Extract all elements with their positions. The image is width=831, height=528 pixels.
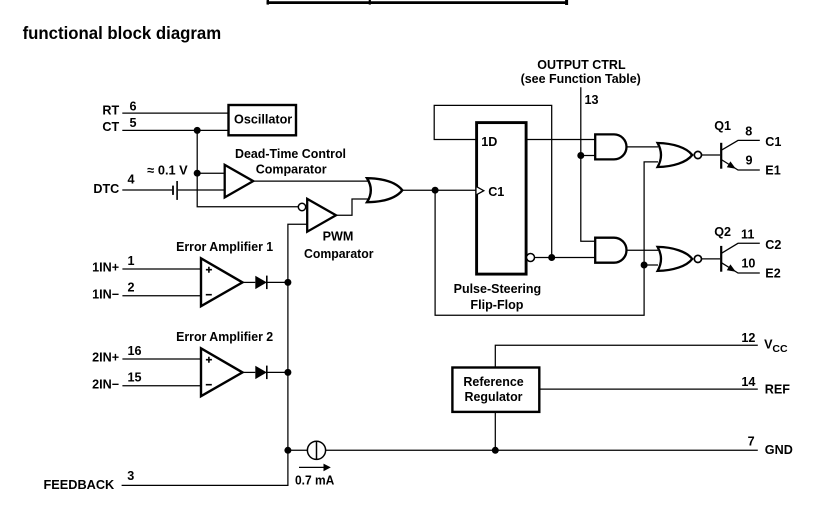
svg-text:E2: E2 [765,267,780,281]
wire long feedback to output NOR gates [435,162,658,315]
battery 0.1 V offset [172,186,174,195]
svg-text:4: 4 [127,173,134,187]
svg-text:functional block diagram: functional block diagram [23,23,222,43]
svg-text:2: 2 [127,281,134,295]
svg-text:Reference: Reference [463,375,523,389]
svg-text:PWM: PWM [323,230,354,244]
svg-text:15: 15 [127,371,141,385]
node OR output junction [432,187,439,194]
svg-text:Comparator: Comparator [304,247,374,261]
diode D2 [255,366,266,379]
svg-text:CC: CC [772,343,788,355]
svg-text:C2: C2 [765,238,781,252]
svg-text:≈ 0.1 V: ≈ 0.1 V [147,164,188,178]
wire 1D feedback loop [434,105,552,257]
node NOR branch junction [641,262,648,269]
box oscillator [229,105,297,135]
svg-text:1IN+: 1IN+ [92,260,119,274]
wire battery to comparator [178,189,226,191]
svg-text:2IN−: 2IN− [92,377,119,391]
gate AND lower [595,238,626,263]
node 0.1V junction [194,170,201,177]
wire upper NOR output to Q1 base [702,154,721,156]
wire GND pin 7 [288,449,308,451]
svg-text:FEEDBACK: FEEDBACK [44,478,115,492]
svg-text:2IN+: 2IN+ [92,350,119,364]
svg-text:1: 1 [127,254,134,268]
wire Qbar output [535,257,598,259]
gate OR [367,178,402,202]
gate NOR upper [658,143,693,167]
wire OR output to flip-flop C1 [402,189,477,191]
svg-text:8: 8 [745,125,752,139]
wire dead-time comparator output to OR gate [253,180,370,182]
svg-text:Q1: Q1 [714,119,731,133]
gate NOR lower [658,247,693,271]
table bottom border (cropped table above) [267,0,569,5]
clock chevron C1 [477,187,484,195]
Qbar bubble [527,254,535,262]
svg-text:REF: REF [765,382,790,396]
wire OUTPUT CTRL pin 13 [581,87,597,241]
svg-text:Oscillator: Oscillator [234,112,292,126]
op-amp error amplifier 1 [122,268,202,270]
svg-text:RT: RT [102,104,119,118]
svg-text:Dead-Time Control: Dead-Time Control [235,147,346,161]
wire 0.1V branch to dead-time comparator + input [197,172,226,174]
svg-text:(see Function Table): (see Function Table) [521,72,641,86]
wire PWM comparator output [336,199,370,215]
node CT junction [194,127,201,134]
wire branch to lower NOR gate [644,264,658,266]
wire Q output [526,139,597,141]
svg-text:DTC: DTC [93,182,119,196]
svg-text:GND: GND [765,443,793,457]
wire lower NOR output to Q2 base [702,258,721,260]
svg-text:OUTPUT CTRL: OUTPUT CTRL [537,58,626,72]
wire RT pin 6 [122,112,229,114]
svg-text:C1: C1 [765,135,781,149]
current source 0.7 mA [307,441,325,459]
svg-text:C1: C1 [488,185,504,199]
wire VCC pin 12 [495,345,758,367]
node bus-GND junction [284,447,291,454]
svg-text:0.7 mA: 0.7 mA [295,474,334,488]
svg-text:1IN−: 1IN− [92,287,119,301]
flip-flop U (pulse-steering) [477,123,526,275]
current arrow [299,466,325,468]
wire branch to upper AND gate [581,155,597,157]
wire REF pin 14 [539,388,758,390]
wire upper AND output [627,146,659,148]
svg-text:Q2: Q2 [714,225,731,239]
svg-text:5: 5 [129,116,136,130]
op-amp PWM comparator [298,203,305,210]
transistor Q2 [720,246,722,272]
wire regulator to GND [494,412,496,450]
wire DTC pin 4 [122,189,172,191]
svg-text:Flip-Flop: Flip-Flop [470,298,523,312]
svg-text:14: 14 [741,375,755,389]
svg-text:Comparator: Comparator [256,162,327,176]
svg-text:1D: 1D [481,135,497,149]
node EA1 output junction [284,279,291,286]
svg-text:12: 12 [741,331,755,345]
svg-text:Regulator: Regulator [465,390,523,404]
svg-text:13: 13 [585,93,599,107]
node EA2 output junction [284,369,291,376]
transistor Q1 [720,143,722,169]
diode D1 [255,276,266,289]
svg-text:7: 7 [748,435,755,449]
wire CT sawtooth vertical to PWM comparator input [197,130,298,206]
box reference regulator [452,368,539,412]
svg-text:16: 16 [127,344,141,358]
node Qbar junction [548,254,555,261]
op-amp error amplifier 2 [122,358,202,360]
svg-text:Pulse-Steering: Pulse-Steering [454,282,542,296]
wire CT pin 5 [122,129,229,131]
svg-text:6: 6 [129,99,136,113]
svg-text:E1: E1 [765,164,780,178]
node output-ctrl junction [577,152,584,159]
gate AND upper [595,134,626,159]
svg-text:3: 3 [127,469,134,483]
svg-text:10: 10 [741,257,755,271]
wire lower AND output [627,249,659,251]
svg-text:9: 9 [745,154,752,168]
svg-text:CT: CT [102,120,119,134]
op-amp dead-time control comparator [225,165,254,198]
wire feedback bus vertical [122,224,308,485]
node GND junction [492,447,499,454]
svg-text:Error Amplifier 1: Error Amplifier 1 [176,240,273,254]
svg-text:Error Amplifier 2: Error Amplifier 2 [176,330,273,344]
svg-text:11: 11 [741,228,754,242]
